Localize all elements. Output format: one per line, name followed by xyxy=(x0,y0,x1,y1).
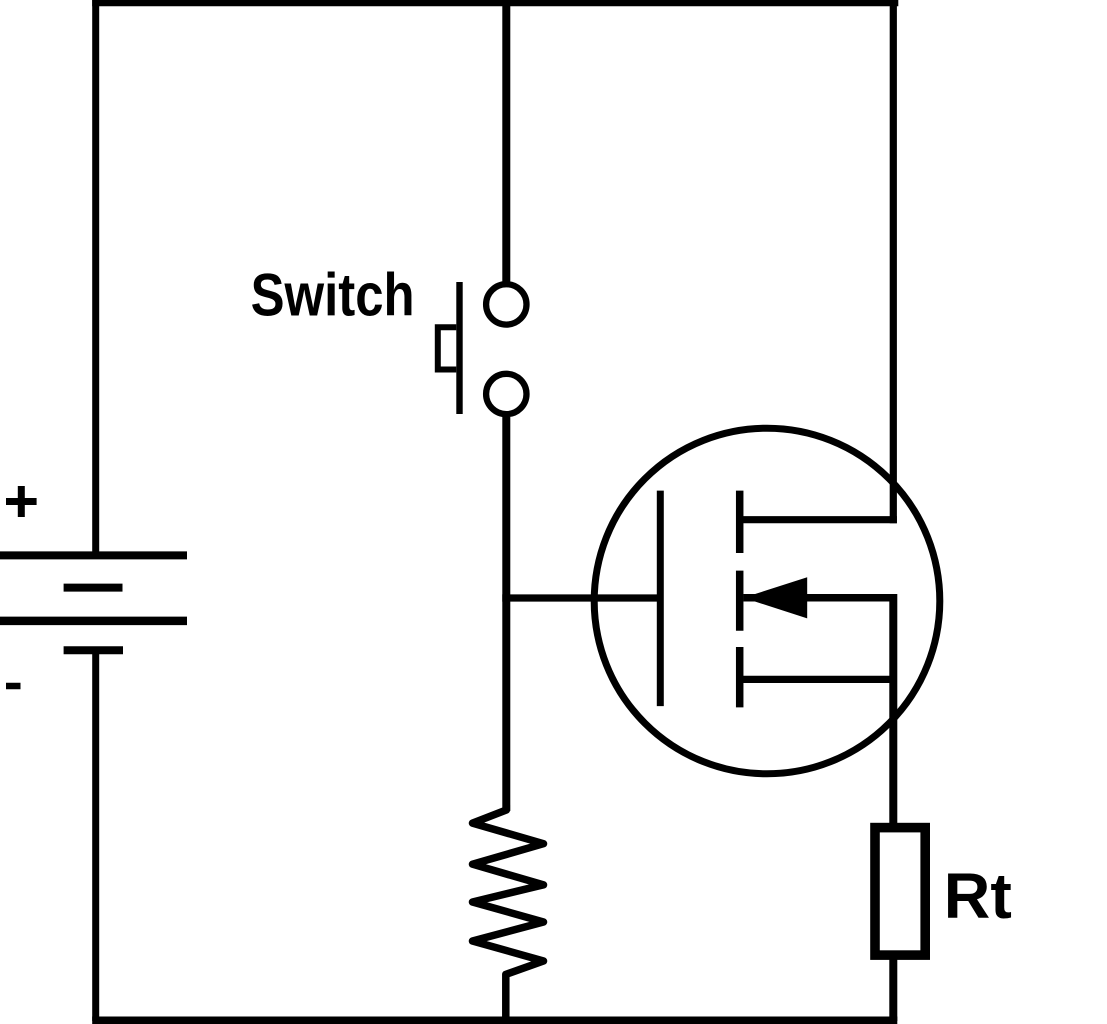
switch S1 xyxy=(251,262,527,414)
battery plus label xyxy=(6,486,37,517)
wire middle vertical upper (top wire to switch) xyxy=(502,0,510,282)
Rt rectangle body xyxy=(875,828,925,956)
switch bottom contact circle xyxy=(486,374,526,414)
wire middle vertical middle (switch to resistor, gate junction) xyxy=(502,417,510,811)
wire right vertical upper (top wire to drain) xyxy=(890,0,897,523)
resistor R1 zigzag xyxy=(473,805,544,1018)
wire Rt to bottom xyxy=(889,958,897,1021)
battery long plate 2 xyxy=(0,617,187,626)
body arrowhead xyxy=(743,577,807,618)
wire gate horizontal xyxy=(502,594,660,601)
battery B1 xyxy=(0,486,187,686)
switch plunger bar xyxy=(456,282,462,414)
MOSFET Q1 xyxy=(594,428,940,774)
wire right vertical lower (source to Rt) xyxy=(889,594,897,824)
battery short plate 2 xyxy=(64,646,123,654)
body lead horizontal with arrow xyxy=(743,594,897,602)
switch top contact circle xyxy=(486,284,526,324)
wire left vertical lower (battery - to bottom) xyxy=(92,650,99,1021)
switch button bracket xyxy=(438,327,457,369)
battery minus label xyxy=(6,683,21,690)
transistor body circle xyxy=(594,428,940,774)
source lead horizontal xyxy=(740,676,897,683)
svg-text:Switch: Switch xyxy=(251,262,415,329)
wire bottom horizontal xyxy=(92,1017,897,1024)
battery short plate 1 xyxy=(64,584,123,592)
battery long plate 1 xyxy=(0,551,187,559)
wire top horizontal xyxy=(92,0,898,6)
resistor Rt xyxy=(875,828,1012,956)
svg-text:Rt: Rt xyxy=(944,860,1012,932)
channel dash bottom (source) xyxy=(736,647,744,707)
channel dash middle (body) xyxy=(736,571,744,631)
gate bar xyxy=(657,491,664,706)
wire left vertical upper (battery + to top) xyxy=(92,0,99,555)
drain lead horizontal xyxy=(740,516,897,523)
channel dash top (drain) xyxy=(736,491,744,553)
